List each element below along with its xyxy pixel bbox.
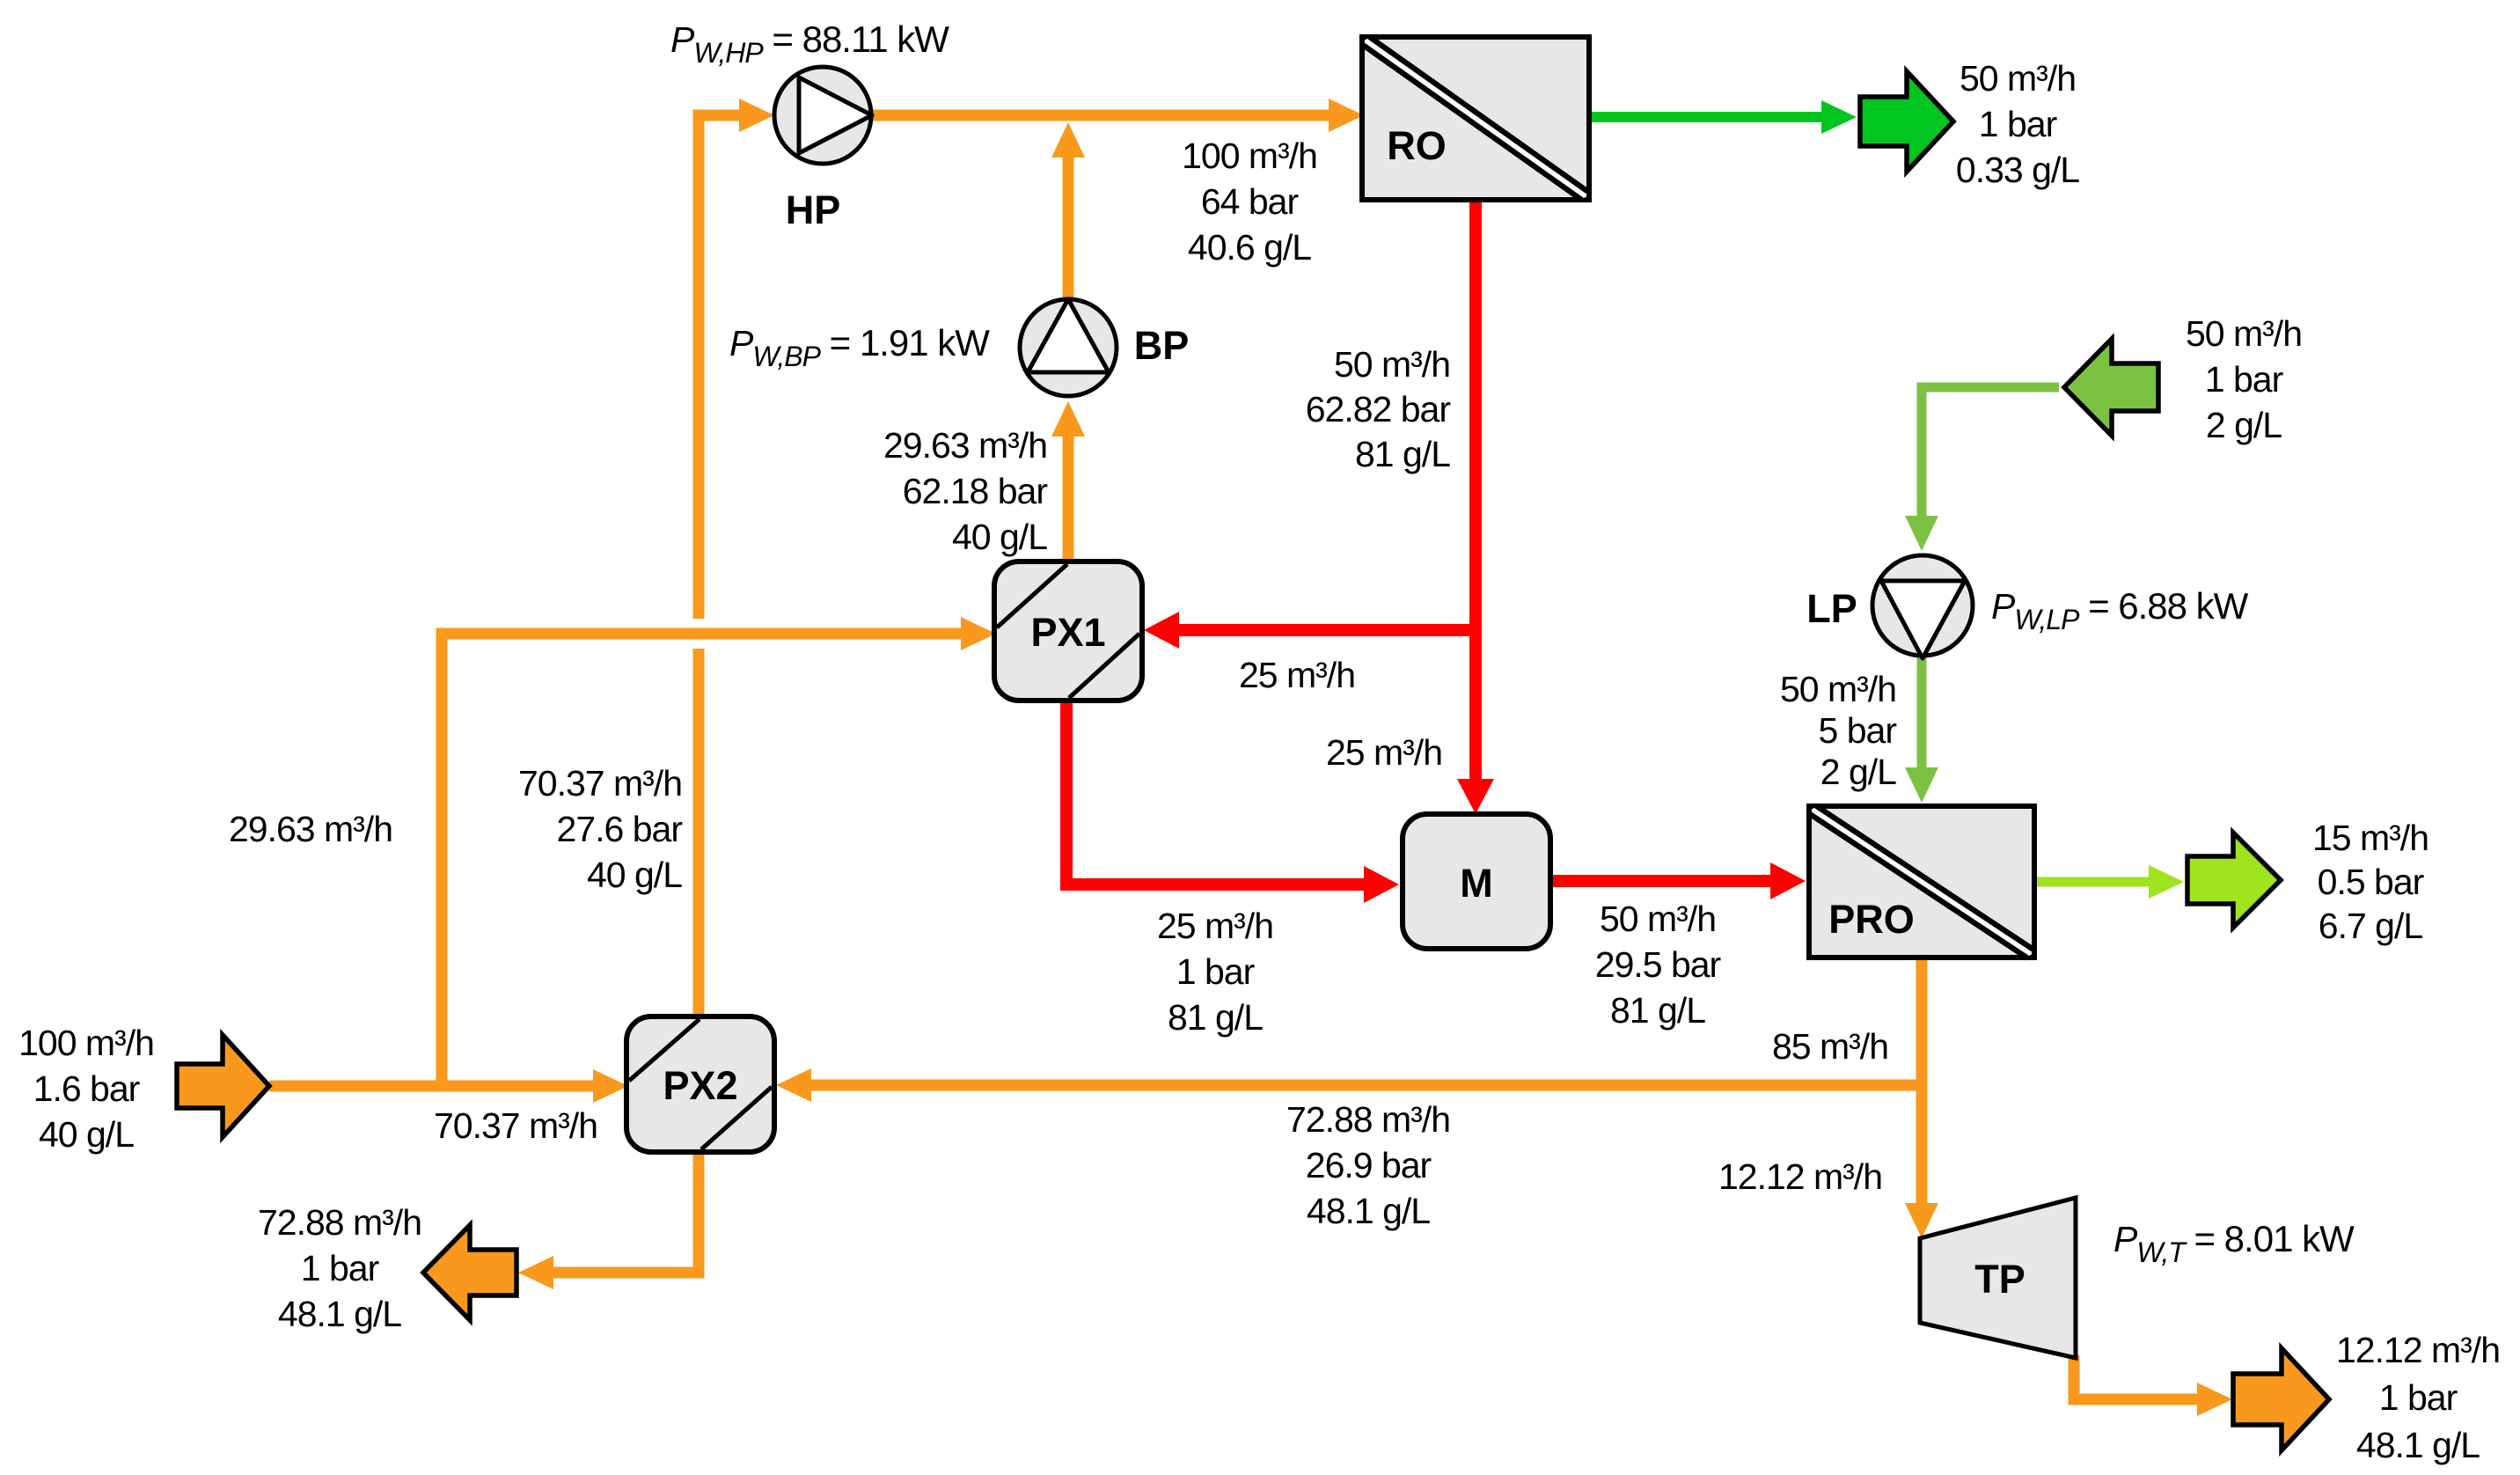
svg-text:25 m³/h: 25 m³/h: [1239, 655, 1355, 695]
svg-text:48.1 g/L: 48.1 g/L: [278, 1294, 401, 1334]
svg-text:81 g/L: 81 g/L: [1355, 434, 1450, 474]
svg-text:70.37 m³/h: 70.37 m³/h: [518, 763, 682, 804]
svg-text:2 g/L: 2 g/L: [1820, 752, 1896, 792]
svg-text:RO: RO: [1387, 123, 1447, 168]
svg-text:PW,LP = 6.88 kW: PW,LP = 6.88 kW: [1991, 585, 2249, 635]
svg-text:PW,T = 8.01 kW: PW,T = 8.01 kW: [2113, 1218, 2355, 1268]
svg-text:50 m³/h: 50 m³/h: [1334, 344, 1450, 385]
svg-text:TP: TP: [1974, 1257, 2026, 1302]
svg-text:5 bar: 5 bar: [1819, 710, 1897, 751]
svg-text:LP: LP: [1806, 586, 1857, 631]
svg-text:40 g/L: 40 g/L: [952, 517, 1047, 557]
svg-text:PW,HP = 88.11 kW: PW,HP = 88.11 kW: [670, 18, 949, 69]
svg-text:25 m³/h: 25 m³/h: [1157, 906, 1273, 946]
svg-text:100 m³/h: 100 m³/h: [18, 1023, 154, 1063]
svg-text:40.6 g/L: 40.6 g/L: [1188, 227, 1311, 268]
svg-text:50 m³/h: 50 m³/h: [1780, 669, 1896, 709]
svg-text:50 m³/h: 50 m³/h: [1960, 58, 2076, 99]
svg-text:29.63 m³/h: 29.63 m³/h: [229, 809, 392, 849]
svg-text:62.82 bar: 62.82 bar: [1306, 389, 1451, 429]
svg-text:40 g/L: 40 g/L: [39, 1114, 134, 1155]
svg-text:72.88 m³/h: 72.88 m³/h: [1286, 1099, 1450, 1140]
svg-text:50 m³/h: 50 m³/h: [1600, 899, 1716, 939]
svg-text:81 g/L: 81 g/L: [1168, 997, 1263, 1038]
svg-text:0.33 g/L: 0.33 g/L: [1956, 150, 2079, 190]
svg-text:M: M: [1460, 861, 1493, 906]
svg-text:50 m³/h: 50 m³/h: [2186, 313, 2302, 354]
svg-text:29.63 m³/h: 29.63 m³/h: [883, 425, 1047, 466]
svg-text:70.37 m³/h: 70.37 m³/h: [434, 1105, 597, 1146]
svg-text:62.18 bar: 62.18 bar: [903, 471, 1048, 511]
svg-text:1 bar: 1 bar: [301, 1248, 379, 1288]
svg-text:27.6 bar: 27.6 bar: [557, 809, 683, 849]
svg-text:1.6 bar: 1.6 bar: [33, 1068, 140, 1109]
svg-text:40 g/L: 40 g/L: [587, 855, 682, 895]
svg-text:PX2: PX2: [663, 1063, 737, 1108]
svg-text:1 bar: 1 bar: [2379, 1377, 2458, 1418]
svg-text:PW,BP = 1.91 kW: PW,BP = 1.91 kW: [729, 322, 990, 372]
svg-text:PRO: PRO: [1828, 897, 1915, 942]
svg-text:6.7 g/L: 6.7 g/L: [2319, 906, 2423, 946]
svg-text:100 m³/h: 100 m³/h: [1182, 136, 1317, 176]
svg-text:85 m³/h: 85 m³/h: [1772, 1026, 1888, 1067]
svg-text:1 bar: 1 bar: [1176, 951, 1255, 992]
svg-text:BP: BP: [1134, 323, 1190, 368]
svg-text:29.5 bar: 29.5 bar: [1595, 944, 1721, 985]
svg-text:12.12 m³/h: 12.12 m³/h: [1718, 1156, 1882, 1197]
svg-text:72.88 m³/h: 72.88 m³/h: [258, 1202, 421, 1243]
svg-text:2 g/L: 2 g/L: [2206, 405, 2282, 445]
svg-text:1 bar: 1 bar: [1979, 104, 2057, 144]
svg-text:81 g/L: 81 g/L: [1610, 990, 1705, 1031]
svg-text:12.12 m³/h: 12.12 m³/h: [2336, 1330, 2500, 1370]
svg-text:64 bar: 64 bar: [1201, 181, 1299, 222]
svg-text:PX1: PX1: [1030, 610, 1105, 655]
svg-text:26.9 bar: 26.9 bar: [1306, 1145, 1432, 1185]
svg-text:1 bar: 1 bar: [2205, 359, 2283, 400]
svg-text:HP: HP: [786, 187, 841, 232]
svg-text:25 m³/h: 25 m³/h: [1326, 732, 1442, 773]
svg-text:15 m³/h: 15 m³/h: [2312, 818, 2428, 858]
svg-text:48.1 g/L: 48.1 g/L: [2356, 1425, 2480, 1465]
svg-text:0.5 bar: 0.5 bar: [2318, 862, 2424, 902]
svg-text:48.1 g/L: 48.1 g/L: [1307, 1191, 1430, 1231]
